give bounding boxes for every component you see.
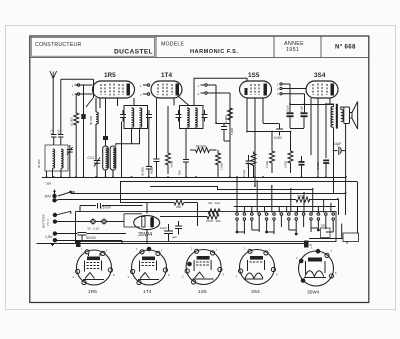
chassis box <box>76 212 337 242</box>
IF transformer T2 box <box>180 106 204 129</box>
label 1,5V <box>45 235 53 239</box>
switch bank riser wires <box>237 177 331 213</box>
label DUCASTEL <box>114 49 153 56</box>
svg-text:2 MΩ: 2 MΩ <box>284 160 288 168</box>
T3 secondary <box>341 110 344 122</box>
tube V3 internal electrodes <box>245 84 268 96</box>
tube V1 1R5 envelope <box>93 81 135 98</box>
pilot lamp LP2 <box>101 219 107 225</box>
svg-text:50.000: 50.000 <box>86 236 96 240</box>
label base 35W4 <box>307 290 320 295</box>
label 50 000 <box>196 145 206 149</box>
svg-text:0,5 μF: 0,5 μF <box>286 105 290 113</box>
label 6V 0,1A <box>88 227 100 231</box>
wire bus to bases <box>346 242 348 244</box>
padder capacitor Cp1 <box>51 135 57 146</box>
svg-text:20.000: 20.000 <box>141 167 145 176</box>
35W4 internals <box>142 203 154 244</box>
label 1Md <box>246 160 250 168</box>
label 0,1uF <box>286 105 290 113</box>
oscillator coil L3a <box>103 146 109 177</box>
label 25.000 <box>101 206 111 210</box>
capacitor C5b 50uuF <box>154 98 160 177</box>
svg-text:1S5: 1S5 <box>198 289 207 295</box>
label 50uuF <box>150 165 154 174</box>
capacitor C19 dark <box>299 156 305 177</box>
resistor R9 vertical <box>288 132 293 174</box>
T2 coils <box>187 108 197 127</box>
wire drops below V2 <box>174 96 189 106</box>
svg-text:DUCASTEL: DUCASTEL <box>114 49 153 56</box>
tube base B4 3S4 <box>239 249 276 284</box>
svg-text:BATTERIE: BATTERIE <box>42 214 46 228</box>
label 500 <box>298 195 304 199</box>
svg-text:30.000: 30.000 <box>37 159 41 168</box>
svg-text:150: 150 <box>321 224 326 228</box>
T2 tuning capacitors <box>176 110 208 122</box>
capacitor C1 <box>81 85 85 177</box>
wire antenna junction <box>53 79 61 135</box>
terminal block E2 <box>304 241 309 248</box>
label MODELE <box>161 42 184 48</box>
wire V1 grid bracket <box>61 79 94 98</box>
label CV.2 <box>88 156 95 160</box>
resistor R13 <box>208 209 220 214</box>
resistor box bottom right <box>321 228 331 238</box>
svg-text:90V: 90V <box>45 195 52 199</box>
padder capacitor Cp2 <box>58 135 64 146</box>
wire top bracket V3 to T2 <box>194 78 247 105</box>
L1 coil windings <box>53 149 64 168</box>
label B plus <box>310 243 312 247</box>
label 90V <box>45 195 52 199</box>
capacitor C8 <box>246 155 252 177</box>
label 10uF2 <box>300 106 304 113</box>
tube V4 internal electrodes <box>313 84 334 96</box>
svg-text:HARMONIC F.S.: HARMONIC F.S. <box>190 49 238 55</box>
label base 3S4 <box>251 289 260 295</box>
label 2700-10w <box>206 219 222 223</box>
label 10uF <box>334 142 341 146</box>
label CONSTRUCTEUR <box>35 42 82 48</box>
pilot lamp LP1 <box>90 219 96 225</box>
wire plate bus V4 <box>263 105 334 129</box>
label 5.000 <box>230 127 234 135</box>
svg-text:μμF: μμF <box>172 235 177 239</box>
tube V3 1S5 envelope <box>240 81 272 98</box>
svg-text:1R5: 1R5 <box>104 72 116 79</box>
svg-text:35W4: 35W4 <box>307 290 320 295</box>
oscillator coil L3b <box>110 146 116 177</box>
35W4 wire loop <box>124 214 142 227</box>
tube base B1 1R5 <box>76 250 113 285</box>
switch bank contacts <box>236 206 335 235</box>
tube V1 internal electrodes <box>101 84 130 96</box>
svg-text:1951: 1951 <box>286 47 299 53</box>
label 35W4 <box>138 232 152 238</box>
schematic frame <box>30 36 369 303</box>
bottom bus line <box>37 243 307 245</box>
tube base B5 35W4 <box>299 249 334 286</box>
label 2.000R <box>170 160 174 168</box>
speaker LS <box>344 102 358 130</box>
label 1Mc <box>220 162 224 170</box>
capacitor C6 <box>183 129 189 177</box>
resistor R7 vertical <box>251 152 256 178</box>
wire drops below V1 <box>86 98 134 108</box>
resistor R11b 250 inline <box>174 200 184 205</box>
wire drops below V3 <box>247 98 291 186</box>
battery terminal 1,5V <box>53 232 56 242</box>
svg-text:150: 150 <box>57 129 61 134</box>
T1 tuning capacitors <box>120 110 152 122</box>
ground bus 1 <box>42 177 346 179</box>
svg-text:250: 250 <box>176 205 181 209</box>
svg-text:50.000: 50.000 <box>89 115 93 125</box>
svg-text:50.000: 50.000 <box>196 145 206 149</box>
plus mark <box>51 243 54 246</box>
svg-text:3.000: 3.000 <box>170 160 174 168</box>
label base 1R5 <box>88 289 97 295</box>
floating node pins left of V3 <box>201 84 231 94</box>
tube base B3 1S5 <box>185 249 222 284</box>
wire node join <box>216 123 230 125</box>
label 1R5 top <box>104 72 116 79</box>
coupling capacitor C9 <box>287 84 294 128</box>
terminal box bottom right <box>343 233 359 242</box>
svg-text:10 MΩ: 10 MΩ <box>224 115 228 124</box>
tube V2 internal electrodes <box>158 84 179 96</box>
svg-text:MODELE: MODELE <box>161 42 184 48</box>
V3 pin stubs right <box>280 83 307 95</box>
bus 3 with step <box>150 187 312 190</box>
switch S1 <box>58 191 75 196</box>
svg-text:5.000: 5.000 <box>274 136 282 140</box>
wire contact to bus line <box>309 224 343 239</box>
capacitor C5 <box>146 122 152 178</box>
bus 6 <box>120 182 198 227</box>
resistor R14 <box>160 214 219 219</box>
svg-text:25.000: 25.000 <box>101 206 111 210</box>
L1 wires to bus <box>47 169 62 178</box>
label 170 <box>50 129 54 134</box>
battery terminal 90V <box>53 191 59 203</box>
capacitor C14 25000 <box>80 203 143 212</box>
resistor R6 vertical <box>228 104 233 122</box>
label 20.000 <box>141 167 145 176</box>
V2 pin stubs <box>143 84 150 95</box>
label VR-10w <box>208 201 221 205</box>
V1 pin digits <box>72 84 74 97</box>
svg-text:1S5: 1S5 <box>248 72 260 79</box>
label 250 <box>176 205 181 209</box>
label 10.000 R1 <box>70 117 74 126</box>
node digits <box>198 84 200 96</box>
IF transformer T1 box <box>124 106 148 129</box>
svg-text:N° 668: N° 668 <box>335 44 356 51</box>
label 1T4 top <box>161 72 172 79</box>
label 35B <box>46 182 51 186</box>
label base 1S5 <box>198 289 207 295</box>
svg-text:2700 - 10w: 2700 - 10w <box>206 219 222 223</box>
resistor R3 vertical <box>166 144 171 174</box>
label 30.000 <box>37 159 41 168</box>
T3 and speaker wires <box>326 104 346 193</box>
svg-text:35W4: 35W4 <box>138 232 152 238</box>
label 50.000 L2 <box>89 115 93 125</box>
svg-text:1R5: 1R5 <box>88 289 97 295</box>
wire node drops <box>216 85 230 123</box>
label 2.000 <box>316 162 320 170</box>
base pin digits <box>73 246 338 280</box>
label 150 <box>57 129 61 134</box>
antenna coil L1 box <box>45 145 68 171</box>
wire drops below V4 <box>311 98 330 177</box>
wires battery to box <box>57 222 126 244</box>
label 150b <box>321 224 326 228</box>
label BATTERIE <box>42 214 51 228</box>
bus 5 <box>58 200 339 216</box>
battery terminal 7,5V <box>53 213 56 223</box>
svg-text:CONSTRUCTEUR: CONSTRUCTEUR <box>35 42 82 48</box>
svg-text:500: 500 <box>298 195 304 199</box>
capacitor C17 <box>175 221 182 235</box>
label 5.000b <box>274 136 282 140</box>
tube base B2 1T4 <box>131 247 168 285</box>
label No 668 <box>335 44 356 51</box>
svg-text:10.000: 10.000 <box>70 117 74 126</box>
label 1Me <box>265 160 269 168</box>
resistor R1 vertical <box>74 94 79 177</box>
header title block <box>30 36 369 58</box>
svg-text:10μF: 10μF <box>160 226 167 230</box>
tube V4 3S4 envelope <box>306 81 338 98</box>
switch bank rail <box>234 206 336 208</box>
svg-text:3S4: 3S4 <box>251 289 260 295</box>
T3 core <box>336 104 338 129</box>
switch S2 <box>57 211 76 243</box>
label 1000uuF <box>172 235 177 239</box>
label 1S5 top <box>248 72 260 79</box>
rectifier tube 35W4 envelope <box>134 216 160 230</box>
bus 2 <box>120 182 358 234</box>
label 10M <box>224 115 228 124</box>
label 500c <box>178 170 182 175</box>
trimmer CV2 <box>94 158 101 178</box>
svg-text:5.000: 5.000 <box>230 127 234 135</box>
bus 4 <box>71 194 346 216</box>
V3 pin digits <box>277 83 279 97</box>
capacitor C2 dark <box>103 98 108 146</box>
tube V2 1T4 envelope <box>151 81 182 98</box>
resistor R4 horizontal 50000 <box>190 148 217 153</box>
svg-text:50μμF: 50μμF <box>150 165 154 174</box>
svg-text:358: 358 <box>46 182 51 186</box>
label ANNEE 1951 <box>284 41 304 53</box>
output transformer T3 primary <box>331 107 334 128</box>
terminal block E1 <box>76 240 81 247</box>
coupling capacitor C10 <box>301 94 308 128</box>
svg-text:1T4: 1T4 <box>143 289 152 295</box>
V1 pin stubs <box>75 84 93 95</box>
resistor R8 vertical <box>270 132 275 174</box>
oscillator grid coil L2 <box>96 98 98 160</box>
label base 1T4 <box>143 289 152 295</box>
svg-text:1 MΩ: 1 MΩ <box>265 160 269 168</box>
capacitor C16 10uF <box>164 224 173 242</box>
resistor R10 horizontal 500 <box>296 197 310 202</box>
label 2Me <box>284 160 288 168</box>
svg-text:VR - 10w: VR - 10w <box>208 201 221 205</box>
svg-text:7,5 V: 7,5 V <box>46 219 50 226</box>
T1 coils <box>132 108 142 127</box>
svg-text:2.000: 2.000 <box>316 162 320 170</box>
capacitor C13 10uF <box>333 147 346 156</box>
V2 pin digits <box>140 84 142 97</box>
svg-text:0,1μF: 0,1μF <box>300 106 304 113</box>
svg-text:1T4: 1T4 <box>161 72 172 79</box>
svg-text:0,1μF: 0,1μF <box>242 169 246 177</box>
svg-text:CV.2: CV.2 <box>88 156 95 160</box>
svg-text:6V... 0,1A: 6V... 0,1A <box>88 227 100 231</box>
capacitor C11 <box>276 124 283 136</box>
trimmer CV1 <box>67 145 73 177</box>
wire V2 screen drop <box>167 106 169 144</box>
label 10uFb <box>160 226 167 230</box>
label HARMONIC F.S. <box>190 49 238 55</box>
antenna <box>50 71 57 79</box>
svg-text:1 MΩ: 1 MΩ <box>220 162 224 170</box>
label 3S4 top <box>314 72 326 79</box>
capacitor C18 dark <box>323 158 329 177</box>
wire T1 bottom to L3b <box>116 122 140 178</box>
resistor R5 vertical 1M <box>216 150 221 177</box>
svg-text:1,5V: 1,5V <box>45 235 53 239</box>
svg-text:10μF: 10μF <box>334 142 341 146</box>
capacitor C15 50000 <box>78 233 87 241</box>
svg-text:500: 500 <box>178 170 182 175</box>
label 05c <box>242 169 246 177</box>
svg-text:170: 170 <box>50 129 54 134</box>
svg-text:3S4: 3S4 <box>314 72 326 79</box>
label 50.000 <box>86 236 96 240</box>
capacitor C7 <box>221 122 230 177</box>
